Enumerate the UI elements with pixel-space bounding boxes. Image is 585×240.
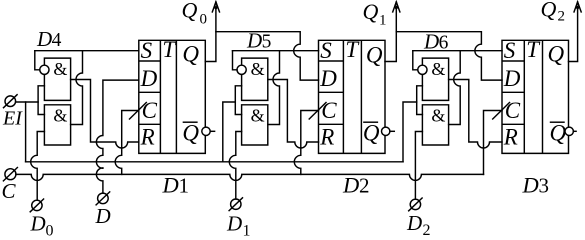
- wire EI riser stage 2: [223, 102, 236, 162]
- svg-text:5: 5: [262, 32, 272, 53]
- flip-flop D1 dynamic C input slash: [130, 103, 147, 120]
- output arrow Q2: [574, 2, 581, 12]
- wire C clock bus: [16, 174, 484, 180]
- wire shift from Q0 to flip-flop D2 data input: [216, 32, 319, 80]
- flip-flop D2 inverted output bubble: [382, 127, 390, 135]
- svg-text:S: S: [504, 38, 516, 63]
- svg-text:D: D: [30, 212, 46, 236]
- wire shift from Q1 to flip-flop D3 data input: [396, 32, 502, 80]
- AND gate D4 lower body: [44, 105, 70, 145]
- svg-text:3: 3: [539, 174, 550, 198]
- output arrow Q1: [393, 2, 400, 12]
- svg-text:EI: EI: [2, 108, 23, 130]
- wire Q output stage 2 riser: [385, 7, 396, 62]
- input terminal D0: [32, 200, 42, 210]
- svg-text:D: D: [140, 66, 158, 91]
- svg-text:D: D: [162, 173, 179, 198]
- input terminal EI wire: [16, 101, 38, 103]
- wire EI riser stage 3: [403, 102, 417, 162]
- svg-text:C: C: [2, 179, 17, 203]
- wire R-net stage 1: upper gate output to R input: [71, 80, 139, 149]
- svg-text:&: &: [53, 106, 67, 126]
- wire EI bus A horizontal: [26, 161, 403, 163]
- svg-text:D: D: [95, 204, 111, 228]
- svg-text:2: 2: [558, 9, 566, 25]
- svg-text:D: D: [522, 173, 539, 198]
- wire C clock riser stage 3: [484, 111, 503, 175]
- svg-text:Q: Q: [541, 0, 557, 22]
- svg-text:Q: Q: [363, 0, 379, 24]
- wire parallel data D0 to lower gate input stage 1: [31, 132, 45, 201]
- wire EI feed stage 3 to gate inputs: [417, 86, 423, 115]
- svg-text:2: 2: [423, 222, 431, 237]
- svg-text:&: &: [431, 59, 445, 79]
- AND gate D4 upper body: [44, 58, 70, 100]
- input terminal D1: [231, 199, 241, 209]
- flip-flop D3 Q-bar stub: [573, 130, 576, 132]
- svg-text:&: &: [251, 106, 265, 126]
- svg-text:2: 2: [359, 174, 370, 198]
- wire parallel data D1 to lower gate input stage 2: [229, 132, 241, 200]
- wire S-net stage 3: lower gate output to S input and upper gate bubble: [449, 51, 461, 125]
- AND gate D4 upper input bubble: [40, 65, 49, 74]
- svg-text:Q: Q: [550, 120, 567, 145]
- svg-text:T: T: [162, 37, 177, 62]
- flip-flop D1 body: [139, 40, 206, 153]
- wire Q output stage 1 riser: [205, 7, 216, 62]
- svg-text:S: S: [141, 38, 153, 63]
- input terminal D2: [410, 199, 420, 209]
- flip-flop D3 body: [502, 40, 569, 153]
- svg-text:C: C: [321, 98, 337, 123]
- svg-text:0: 0: [200, 12, 208, 28]
- wire S-net stage 1: lower gate output to S input and upper gate bubble: [71, 51, 83, 125]
- svg-text:1: 1: [179, 174, 190, 198]
- wire S-net stage 2: lower gate output to S input and upper gate bubble: [268, 51, 280, 125]
- svg-text:C: C: [505, 98, 521, 123]
- svg-text:T: T: [526, 37, 541, 62]
- svg-text:&: &: [53, 59, 67, 79]
- svg-text:Q: Q: [182, 42, 199, 67]
- wire EI feed stage 2 to gate inputs: [235, 86, 241, 115]
- svg-text:1: 1: [379, 13, 387, 29]
- flip-flop D2 dynamic C input slash: [309, 103, 326, 120]
- svg-text:D: D: [319, 66, 337, 91]
- svg-text:D: D: [503, 66, 521, 91]
- svg-text:D: D: [406, 211, 422, 235]
- svg-text:R: R: [319, 124, 334, 149]
- wire serial input D to flip-flop D1 data pin: [96, 80, 138, 193]
- svg-text:Q: Q: [366, 43, 383, 68]
- wire R-net stage 3: upper gate output to R input: [449, 80, 502, 149]
- flip-flop D2 Q-bar stub: [390, 130, 394, 132]
- svg-text:D: D: [423, 30, 439, 54]
- svg-text:C: C: [142, 98, 158, 123]
- svg-text:S: S: [320, 38, 332, 63]
- flip-flop D2 body: [319, 40, 386, 153]
- wire parallel data D2 to lower gate input stage 3: [415, 132, 422, 200]
- AND gate D6 upper body: [422, 58, 448, 100]
- wire Q output stage 3 riser: [569, 7, 578, 62]
- svg-text:4: 4: [52, 30, 62, 51]
- svg-text:Q: Q: [182, 0, 198, 23]
- svg-text:R: R: [140, 124, 155, 149]
- svg-text:D: D: [226, 212, 242, 236]
- AND gate D5 lower body: [242, 105, 268, 145]
- input terminal D: [98, 193, 109, 204]
- svg-text:&: &: [431, 106, 445, 126]
- flip-flop D1 Q-bar stub: [210, 130, 214, 132]
- flip-flop D3 inverted output bubble: [565, 127, 573, 135]
- flip-flop D3 dynamic C input slash: [493, 103, 510, 120]
- svg-text:Q: Q: [363, 120, 380, 145]
- wire C clock riser stage 2: [294, 111, 318, 175]
- svg-text:T: T: [345, 37, 360, 62]
- wire C clock riser stage 1: [115, 111, 139, 175]
- svg-text:0: 0: [46, 223, 54, 238]
- AND gate D5 upper body: [242, 58, 268, 100]
- AND gate D5 upper input bubble: [237, 65, 246, 74]
- output arrow Q0: [212, 2, 219, 12]
- svg-text:D: D: [342, 173, 359, 198]
- svg-text:Q: Q: [182, 120, 199, 145]
- svg-text:1: 1: [243, 223, 251, 238]
- input terminal C: [5, 169, 16, 180]
- svg-text:D: D: [36, 27, 52, 51]
- svg-text:R: R: [503, 124, 518, 149]
- flip-flop D1 inverted output bubble: [202, 127, 210, 135]
- wire R-net stage 2: upper gate output to R input: [268, 80, 319, 149]
- wire EI feed stage 1 to gate inputs: [38, 86, 44, 115]
- svg-text:Q: Q: [548, 42, 565, 67]
- svg-text:&: &: [251, 59, 265, 79]
- AND gate D6 upper input bubble: [418, 65, 427, 74]
- wire EI bus drop: [25, 102, 27, 162]
- input terminal EI: [5, 96, 16, 107]
- AND gate D6 lower body: [422, 105, 448, 145]
